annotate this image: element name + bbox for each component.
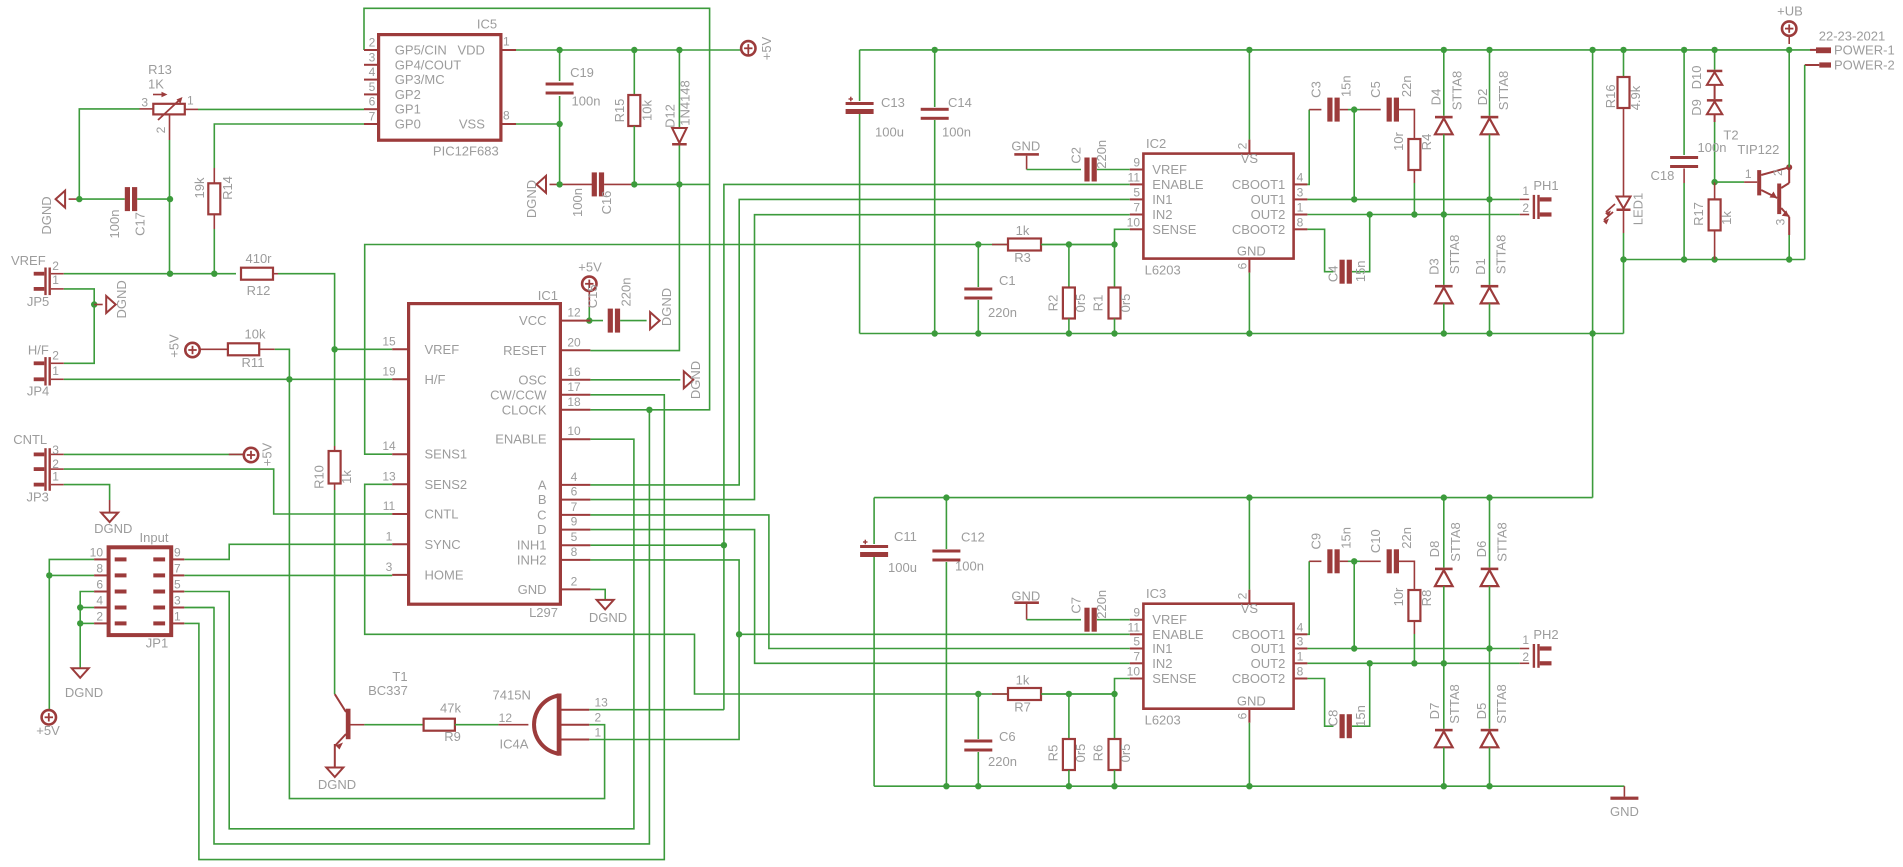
svg-text:+5V: +5V (759, 36, 774, 60)
svg-text:2: 2 (1236, 142, 1250, 149)
svg-text:D12: D12 (663, 104, 678, 128)
svg-text:5: 5 (1133, 635, 1140, 649)
svg-text:15n: 15n (1339, 527, 1354, 549)
svg-text:D10: D10 (1689, 65, 1704, 89)
svg-text:0r5: 0r5 (1073, 294, 1088, 313)
svg-text:+5V: +5V (578, 260, 602, 275)
svg-text:CLOCK: CLOCK (502, 402, 547, 417)
svg-text:0r5: 0r5 (1073, 744, 1088, 763)
svg-text:1: 1 (174, 609, 181, 623)
svg-text:CBOOT2: CBOOT2 (1232, 671, 1285, 686)
svg-text:L6203: L6203 (1145, 263, 1181, 278)
svg-text:PIC12F683: PIC12F683 (433, 144, 499, 159)
svg-text:15n: 15n (1339, 75, 1354, 97)
svg-text:GND: GND (1237, 244, 1266, 259)
svg-text:CBOOT1: CBOOT1 (1232, 627, 1285, 642)
svg-text:GND: GND (1011, 139, 1040, 154)
svg-text:3: 3 (174, 594, 181, 608)
svg-text:47k: 47k (440, 701, 461, 716)
svg-text:SENSE: SENSE (1152, 671, 1196, 686)
svg-text:STTA8: STTA8 (1449, 71, 1464, 111)
svg-text:R10: R10 (312, 465, 327, 489)
svg-text:JP4: JP4 (27, 384, 49, 399)
svg-text:H/F: H/F (28, 343, 49, 358)
svg-text:R6: R6 (1091, 745, 1106, 762)
svg-text:220n: 220n (988, 305, 1017, 320)
svg-text:15n: 15n (1353, 260, 1368, 282)
svg-text:3: 3 (52, 443, 59, 457)
svg-text:DGND: DGND (65, 685, 103, 700)
svg-text:JP1: JP1 (146, 636, 168, 651)
svg-text:IN1: IN1 (1152, 641, 1172, 656)
svg-text:C5: C5 (1368, 81, 1383, 98)
svg-text:D6: D6 (1474, 541, 1489, 558)
svg-text:R1: R1 (1091, 295, 1106, 312)
svg-text:SENS1: SENS1 (425, 447, 468, 462)
svg-text:6: 6 (1236, 262, 1250, 269)
svg-text:VREF: VREF (11, 253, 46, 268)
svg-text:STTA8: STTA8 (1447, 235, 1462, 275)
svg-text:4: 4 (369, 65, 376, 79)
svg-text:410r: 410r (245, 251, 272, 266)
svg-text:R14: R14 (220, 176, 235, 200)
svg-text:8: 8 (1297, 665, 1304, 679)
svg-text:STTA8: STTA8 (1495, 522, 1510, 562)
svg-text:C12: C12 (961, 530, 985, 545)
svg-text:VREF: VREF (1152, 612, 1187, 627)
svg-text:C16: C16 (599, 191, 614, 215)
svg-text:1N4148: 1N4148 (678, 80, 693, 126)
svg-text:2: 2 (52, 259, 59, 273)
svg-text:3: 3 (1297, 185, 1304, 199)
svg-text:C8: C8 (1326, 710, 1341, 727)
svg-text:D5: D5 (1474, 703, 1489, 720)
svg-text:C13: C13 (881, 95, 905, 110)
svg-text:D: D (537, 522, 546, 537)
svg-text:DGND: DGND (524, 180, 539, 218)
svg-text:VS: VS (1241, 151, 1259, 166)
svg-text:9: 9 (1133, 606, 1140, 620)
svg-text:GP4/COUT: GP4/COUT (395, 57, 462, 72)
svg-text:R12: R12 (247, 283, 271, 298)
svg-text:VSS: VSS (459, 117, 485, 132)
svg-text:100u: 100u (888, 560, 917, 575)
svg-text:OSC: OSC (518, 372, 546, 387)
svg-text:R15: R15 (612, 99, 627, 123)
svg-text:2: 2 (96, 609, 103, 623)
svg-text:100n: 100n (1698, 140, 1727, 155)
svg-text:5: 5 (571, 530, 578, 544)
svg-text:IC4A: IC4A (500, 737, 529, 752)
svg-text:STTA8: STTA8 (1448, 522, 1463, 562)
svg-text:GP1: GP1 (395, 102, 421, 117)
svg-text:12: 12 (499, 711, 513, 725)
svg-text:INH2: INH2 (517, 552, 547, 567)
svg-text:SENS2: SENS2 (425, 477, 468, 492)
svg-text:D2: D2 (1475, 89, 1490, 106)
svg-text:6: 6 (571, 485, 578, 499)
svg-text:D1: D1 (1473, 258, 1488, 275)
svg-text:C4: C4 (1326, 265, 1341, 282)
svg-text:1: 1 (1522, 184, 1529, 198)
svg-text:2: 2 (369, 36, 376, 50)
svg-text:GP2: GP2 (395, 87, 421, 102)
svg-text:VCC: VCC (519, 313, 546, 328)
svg-text:0r5: 0r5 (1118, 294, 1133, 313)
svg-text:VDD: VDD (457, 43, 484, 58)
svg-text:10k: 10k (640, 100, 655, 121)
svg-text:13: 13 (595, 696, 609, 710)
svg-text:C1: C1 (999, 273, 1016, 288)
svg-text:6: 6 (369, 95, 376, 109)
svg-text:1: 1 (595, 725, 602, 739)
svg-text:100n: 100n (107, 210, 122, 239)
svg-text:1k: 1k (1719, 211, 1734, 225)
svg-text:L297: L297 (529, 605, 558, 620)
svg-text:L6203: L6203 (1145, 713, 1181, 728)
svg-text:C2: C2 (1069, 147, 1084, 164)
svg-text:RESET: RESET (503, 343, 546, 358)
svg-text:STTA8: STTA8 (1494, 684, 1509, 724)
svg-text:1: 1 (1297, 201, 1304, 215)
svg-text:1: 1 (1745, 167, 1752, 181)
svg-text:CNTL: CNTL (425, 507, 459, 522)
svg-text:18: 18 (567, 395, 581, 409)
svg-text:GP5/CIN: GP5/CIN (395, 43, 447, 58)
svg-text:9: 9 (571, 515, 578, 529)
svg-text:4: 4 (96, 594, 103, 608)
svg-text:11: 11 (1128, 170, 1141, 184)
svg-text:7415N: 7415N (493, 688, 531, 703)
svg-text:2: 2 (1522, 201, 1529, 215)
svg-text:4: 4 (571, 470, 578, 484)
svg-text:R13: R13 (148, 62, 172, 77)
svg-text:3: 3 (1774, 218, 1788, 225)
svg-text:INH1: INH1 (517, 538, 547, 553)
svg-text:IC3: IC3 (1146, 586, 1166, 601)
svg-text:IN1: IN1 (1152, 192, 1172, 207)
svg-text:10: 10 (1127, 665, 1141, 679)
svg-text:1: 1 (1297, 649, 1304, 663)
svg-text:SENSE: SENSE (1152, 222, 1196, 237)
svg-text:1k: 1k (339, 470, 354, 484)
svg-text:C11: C11 (894, 529, 917, 544)
svg-text:9: 9 (1133, 156, 1140, 170)
svg-text:GND: GND (1610, 804, 1639, 819)
svg-text:19: 19 (382, 364, 396, 378)
svg-text:IN2: IN2 (1152, 207, 1172, 222)
svg-text:OUT1: OUT1 (1251, 192, 1286, 207)
svg-text:10: 10 (1127, 215, 1141, 229)
svg-text:2: 2 (1236, 592, 1250, 599)
svg-text:11: 11 (383, 499, 396, 513)
svg-text:1: 1 (52, 364, 59, 378)
svg-text:22-23-2021: 22-23-2021 (1819, 29, 1886, 44)
svg-text:+UB: +UB (1777, 4, 1803, 19)
svg-text:C14: C14 (948, 95, 972, 110)
svg-text:LED1: LED1 (1631, 193, 1646, 226)
svg-text:C10: C10 (1368, 529, 1383, 553)
svg-text:1: 1 (187, 94, 194, 108)
svg-text:C19: C19 (570, 65, 594, 80)
svg-text:15n: 15n (1353, 705, 1368, 727)
svg-text:10r: 10r (1391, 587, 1406, 606)
svg-text:8: 8 (1297, 215, 1304, 229)
svg-text:3: 3 (1297, 635, 1304, 649)
svg-text:1K: 1K (148, 77, 164, 92)
svg-text:D8: D8 (1427, 541, 1442, 558)
svg-text:R11: R11 (242, 355, 265, 370)
svg-text:11: 11 (1128, 620, 1141, 634)
svg-text:R7: R7 (1014, 700, 1031, 715)
svg-text:C6: C6 (999, 729, 1016, 744)
svg-text:PH1: PH1 (1533, 178, 1558, 193)
svg-text:100n: 100n (570, 188, 585, 217)
svg-text:DGND: DGND (39, 196, 54, 234)
svg-text:12: 12 (567, 306, 581, 320)
svg-text:C7: C7 (1069, 597, 1084, 614)
svg-text:D4: D4 (1428, 89, 1443, 106)
svg-text:VREF: VREF (425, 342, 460, 357)
svg-text:9: 9 (174, 545, 181, 559)
svg-text:Input: Input (140, 530, 169, 545)
svg-text:220n: 220n (988, 754, 1017, 769)
svg-text:7: 7 (174, 561, 181, 575)
svg-text:22n: 22n (1399, 527, 1414, 549)
svg-text:1: 1 (52, 470, 59, 484)
svg-text:GND: GND (518, 582, 547, 597)
svg-text:1: 1 (1522, 633, 1529, 647)
svg-text:DGND: DGND (688, 361, 703, 399)
svg-text:R8: R8 (1419, 590, 1434, 607)
svg-text:R16: R16 (1603, 84, 1618, 108)
svg-text:DGND: DGND (589, 610, 627, 625)
svg-text:R9: R9 (444, 729, 461, 744)
svg-text:SYNC: SYNC (425, 537, 461, 552)
svg-text:ENABLE: ENABLE (1152, 177, 1204, 192)
svg-text:CBOOT1: CBOOT1 (1232, 177, 1285, 192)
svg-text:2: 2 (52, 349, 59, 363)
svg-text:IN2: IN2 (1152, 656, 1172, 671)
svg-text:4.9k: 4.9k (1628, 85, 1643, 110)
svg-text:STTA8: STTA8 (1494, 235, 1509, 275)
svg-text:7: 7 (1133, 649, 1140, 663)
svg-text:17: 17 (567, 380, 581, 394)
svg-text:0r5: 0r5 (1118, 744, 1133, 763)
svg-text:C17: C17 (133, 212, 148, 236)
svg-text:100u: 100u (875, 125, 904, 140)
svg-text:IC1: IC1 (538, 288, 558, 303)
svg-text:10: 10 (567, 424, 581, 438)
svg-text:C18: C18 (1650, 168, 1674, 183)
svg-text:R4: R4 (1419, 134, 1434, 151)
svg-text:ENABLE: ENABLE (1152, 627, 1204, 642)
svg-text:1k: 1k (1016, 673, 1030, 688)
svg-text:DGND: DGND (114, 280, 129, 318)
svg-text:8: 8 (571, 545, 578, 559)
svg-text:1: 1 (386, 529, 393, 543)
svg-text:R2: R2 (1046, 295, 1061, 312)
svg-text:B: B (538, 492, 547, 507)
svg-text:R3: R3 (1014, 250, 1031, 265)
svg-text:STTA8: STTA8 (1447, 684, 1462, 724)
svg-text:10k: 10k (245, 327, 266, 342)
svg-text:14: 14 (382, 439, 396, 453)
svg-text:TIP122: TIP122 (1737, 142, 1779, 157)
svg-text:100n: 100n (942, 125, 971, 140)
svg-text:OUT1: OUT1 (1251, 641, 1286, 656)
svg-text:C3: C3 (1308, 81, 1323, 98)
svg-text:10r: 10r (1391, 131, 1406, 150)
svg-text:D3: D3 (1426, 258, 1441, 275)
svg-text:5: 5 (174, 578, 181, 592)
svg-text:7: 7 (1133, 201, 1140, 215)
svg-text:D7: D7 (1427, 703, 1442, 720)
svg-text:1k: 1k (1016, 223, 1030, 238)
svg-text:100n: 100n (955, 559, 984, 574)
svg-text:POWER-1: POWER-1 (1834, 43, 1895, 58)
svg-text:4: 4 (1297, 170, 1304, 184)
svg-text:1: 1 (52, 273, 59, 287)
svg-text:220n: 220n (1094, 140, 1109, 169)
svg-text:R5: R5 (1046, 745, 1061, 762)
svg-text:OUT2: OUT2 (1251, 207, 1286, 222)
svg-text:ENABLE: ENABLE (495, 432, 547, 447)
svg-text:+5V: +5V (36, 723, 60, 738)
svg-text:CNTL: CNTL (13, 432, 47, 447)
svg-text:13: 13 (382, 469, 396, 483)
svg-text:T2: T2 (1723, 127, 1738, 142)
svg-text:C9: C9 (1308, 533, 1323, 550)
svg-text:6: 6 (96, 578, 103, 592)
svg-text:VS: VS (1241, 601, 1259, 616)
svg-text:2: 2 (595, 711, 602, 725)
svg-text:GP0: GP0 (395, 117, 421, 132)
svg-text:OUT2: OUT2 (1251, 656, 1286, 671)
svg-text:JP5: JP5 (27, 294, 49, 309)
svg-text:7: 7 (571, 500, 578, 514)
svg-text:POWER-2: POWER-2 (1834, 58, 1895, 73)
svg-text:VREF: VREF (1152, 162, 1187, 177)
svg-text:2: 2 (571, 574, 578, 588)
svg-text:A: A (538, 477, 547, 492)
svg-text:15: 15 (382, 334, 396, 348)
svg-text:10: 10 (90, 545, 104, 559)
svg-text:C: C (537, 507, 546, 522)
svg-text:CW/CCW: CW/CCW (490, 387, 547, 402)
svg-text:DGND: DGND (659, 288, 674, 326)
svg-text:CBOOT2: CBOOT2 (1232, 222, 1285, 237)
svg-text:GP3/MC: GP3/MC (395, 72, 445, 87)
svg-text:19k: 19k (192, 177, 207, 198)
svg-text:T1: T1 (392, 669, 407, 684)
svg-text:220n: 220n (619, 278, 634, 307)
svg-text:16: 16 (567, 365, 581, 379)
svg-text:100n: 100n (572, 94, 601, 109)
svg-text:HOME: HOME (425, 567, 464, 582)
svg-text:5: 5 (369, 80, 376, 94)
svg-text:4: 4 (1297, 620, 1304, 634)
svg-text:JP3: JP3 (27, 490, 49, 505)
svg-text:2: 2 (154, 126, 168, 133)
svg-text:1: 1 (503, 35, 510, 49)
svg-text:3: 3 (141, 96, 148, 110)
svg-text:3: 3 (369, 50, 376, 64)
svg-text:5: 5 (1133, 185, 1140, 199)
svg-text:H/F: H/F (425, 372, 446, 387)
svg-text:6: 6 (1236, 712, 1250, 719)
svg-text:STTA8: STTA8 (1496, 71, 1511, 111)
svg-text:GND: GND (1011, 589, 1040, 604)
svg-text:+5V: +5V (167, 334, 182, 358)
svg-text:IC5: IC5 (477, 17, 497, 32)
svg-text:8: 8 (503, 109, 510, 123)
svg-text:22n: 22n (1399, 75, 1414, 97)
svg-text:8: 8 (96, 561, 103, 575)
svg-text:R17: R17 (1691, 202, 1706, 226)
svg-text:IC2: IC2 (1146, 136, 1166, 151)
svg-text:C15: C15 (585, 284, 600, 308)
svg-text:20: 20 (567, 336, 581, 350)
svg-text:DGND: DGND (318, 777, 356, 792)
svg-text:2: 2 (1771, 169, 1785, 176)
svg-text:3: 3 (386, 560, 393, 574)
svg-text:DGND: DGND (94, 521, 132, 536)
svg-text:220n: 220n (1094, 590, 1109, 619)
svg-text:7: 7 (369, 110, 376, 124)
svg-text:D9: D9 (1689, 99, 1704, 116)
svg-text:PH2: PH2 (1533, 627, 1558, 642)
svg-text:+5V: +5V (260, 442, 275, 466)
svg-text:2: 2 (1522, 650, 1529, 664)
svg-text:BC337: BC337 (368, 683, 408, 698)
svg-text:GND: GND (1237, 694, 1266, 709)
